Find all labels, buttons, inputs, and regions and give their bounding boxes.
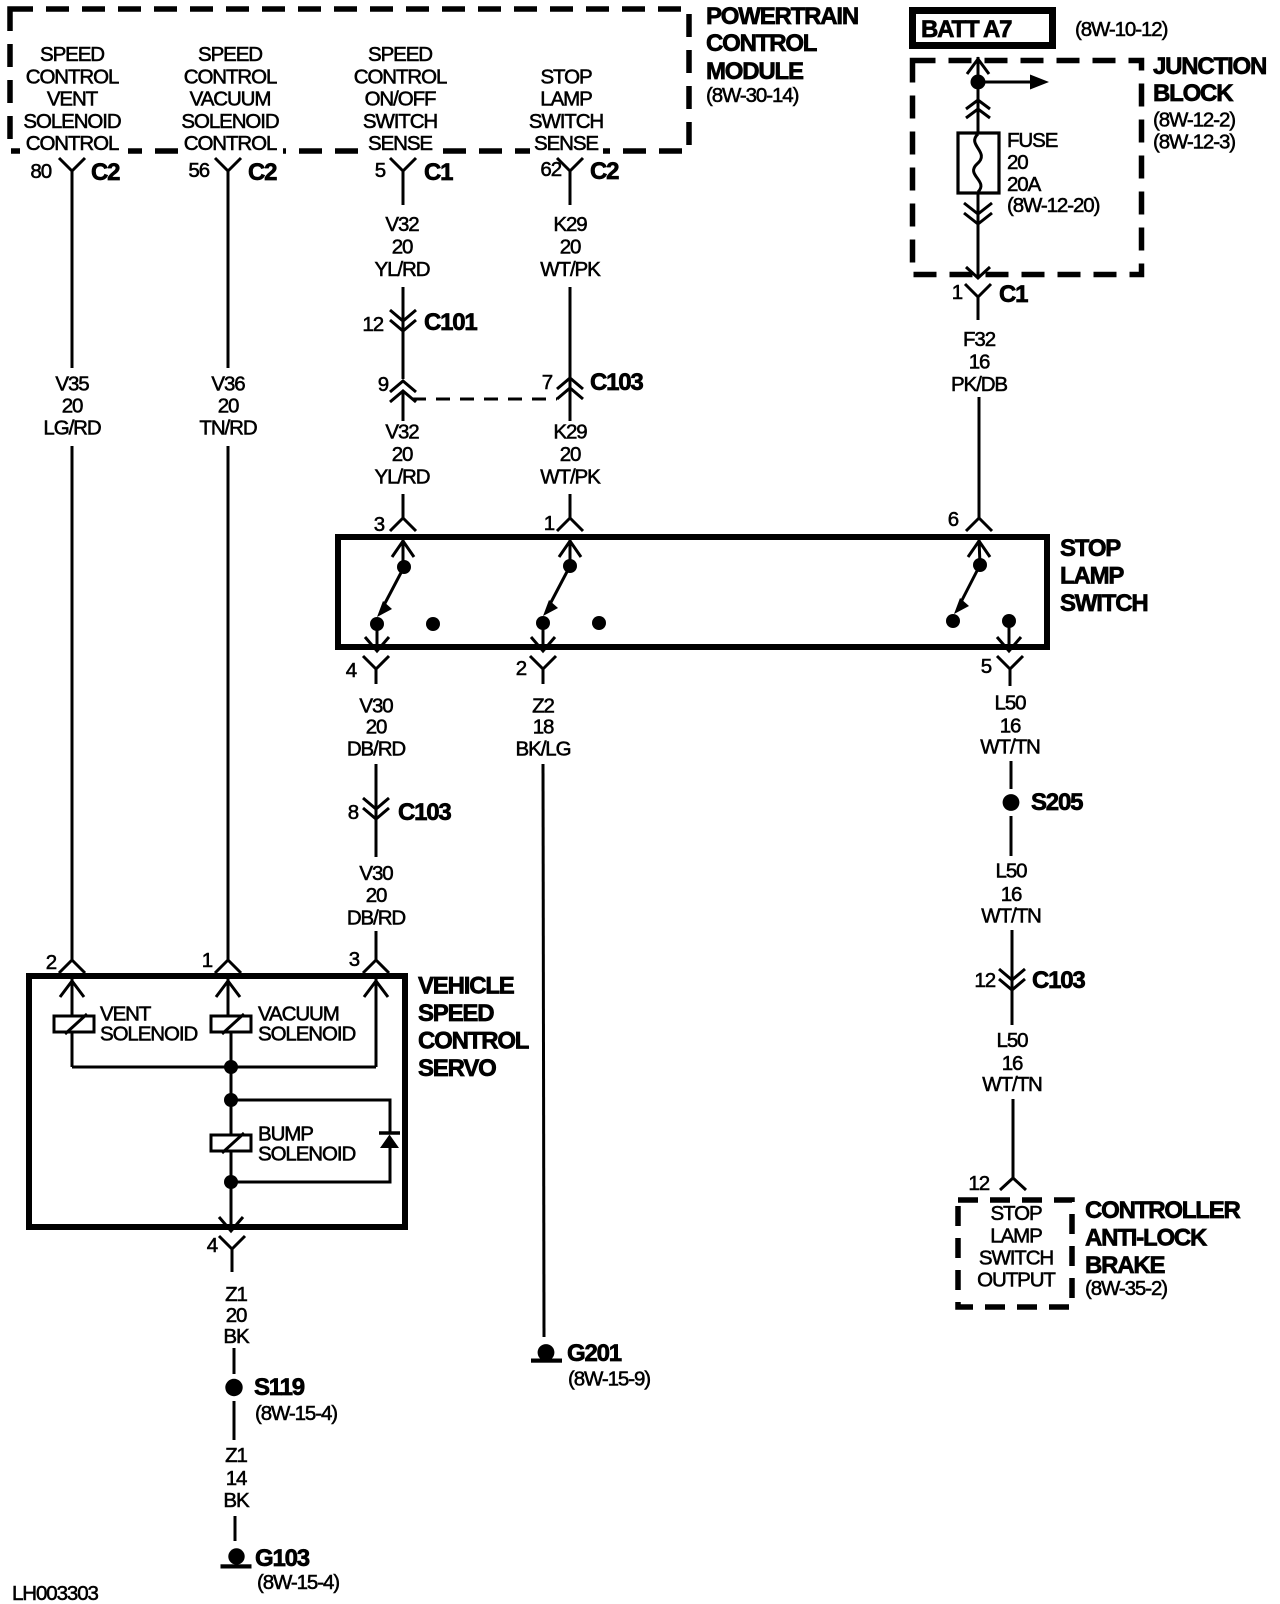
connector C103 pin 7 <box>542 369 644 399</box>
svg-text:12: 12 <box>362 313 383 336</box>
svg-text:CONTROL: CONTROL <box>184 132 277 155</box>
wire label L50 16 WT/TN (upper) <box>980 692 1040 759</box>
wire label V30 20 DB/RD (upper) <box>347 695 406 761</box>
wire label Z2 18 BK/LG <box>516 695 571 761</box>
svg-text:WT/TN: WT/TN <box>980 736 1040 759</box>
svg-text:V36: V36 <box>211 373 245 396</box>
svg-text:C103: C103 <box>590 369 643 396</box>
svg-text:CONTROL: CONTROL <box>706 30 817 57</box>
svg-text:(8W-12-20): (8W-12-20) <box>1007 194 1100 217</box>
svg-text:SWITCH: SWITCH <box>979 1247 1054 1270</box>
svg-text:S205: S205 <box>1031 789 1083 816</box>
switch pin 6 entry arrow <box>968 539 990 565</box>
svg-text:BK: BK <box>223 1325 250 1348</box>
stop lamp switch pin 3 connector half <box>374 505 416 536</box>
svg-text:BRAKE: BRAKE <box>1085 1252 1166 1279</box>
svg-text:YL/RD: YL/RD <box>375 258 430 281</box>
svg-text:2: 2 <box>516 657 527 680</box>
svg-text:YL/RD: YL/RD <box>375 466 430 489</box>
junction dot A in servo <box>224 1060 238 1074</box>
svg-text:C2: C2 <box>590 158 619 185</box>
svg-text:C2: C2 <box>248 159 277 186</box>
battery feed BATT A7 box <box>913 11 1053 46</box>
svg-text:62: 62 <box>540 158 561 181</box>
svg-text:STOP: STOP <box>990 1202 1041 1225</box>
svg-text:SPEED: SPEED <box>40 43 104 66</box>
stop lamp switch pin 6 connector half <box>948 505 992 531</box>
junction block exit arrow <box>966 267 990 278</box>
inline connector chevrons above fuse <box>966 100 990 118</box>
connector C103 pin 12 <box>974 967 1085 994</box>
svg-text:80: 80 <box>30 160 51 183</box>
connector pin 56 of C2 <box>188 158 277 186</box>
svg-text:STOP: STOP <box>1060 535 1121 562</box>
svg-text:LAMP: LAMP <box>990 1225 1042 1248</box>
svg-text:G103: G103 <box>255 1545 310 1572</box>
vacuum solenoid label <box>258 1003 355 1046</box>
switch pole A contact dot <box>370 617 384 631</box>
svg-text:PK/DB: PK/DB <box>951 373 1007 396</box>
svg-text:LAMP: LAMP <box>1060 563 1124 590</box>
wire label K29 20 WT/PK (lower) <box>540 421 601 489</box>
wire label F32 16 PK/DB <box>951 328 1007 396</box>
svg-text:12: 12 <box>974 969 995 992</box>
horizontal bus wire in servo <box>72 1066 376 1069</box>
PCM pin function: speed control vacuum solenoid control <box>181 43 278 155</box>
switch pole B pivot dot <box>563 559 577 573</box>
svg-text:16: 16 <box>1002 1052 1023 1075</box>
svg-text:L50: L50 <box>996 860 1028 883</box>
CAB pin 12 connector half <box>968 1172 1026 1195</box>
svg-text:8: 8 <box>348 801 359 824</box>
switch pole B exit arrow <box>531 637 555 651</box>
ground G201 <box>531 1340 650 1391</box>
wire bump solenoid down <box>230 1100 233 1182</box>
svg-text:18: 18 <box>533 716 554 739</box>
svg-text:ON/OFF: ON/OFF <box>365 88 436 111</box>
wire K29 below C103 <box>569 389 572 421</box>
svg-text:20: 20 <box>226 1304 247 1327</box>
vehicle speed control servo box <box>29 976 405 1227</box>
svg-text:20: 20 <box>366 884 387 907</box>
switch pole B stationary dot <box>592 616 606 630</box>
switch pole C contact dot <box>946 614 960 628</box>
svg-text:DB/RD: DB/RD <box>347 738 406 761</box>
svg-text:SPEED: SPEED <box>368 43 432 66</box>
svg-text:SPEED: SPEED <box>198 43 262 66</box>
svg-text:SWITCH: SWITCH <box>1060 590 1147 617</box>
svg-text:K29: K29 <box>553 421 587 444</box>
servo pin 3 connector half <box>349 948 389 973</box>
svg-text:C1: C1 <box>424 159 453 186</box>
svg-text:SOLENOID: SOLENOID <box>258 1143 355 1166</box>
svg-text:Z1: Z1 <box>225 1283 247 1306</box>
svg-text:BK/LG: BK/LG <box>516 738 571 761</box>
junction block label <box>1153 53 1266 154</box>
wire V36 upper segment <box>227 183 230 368</box>
svg-text:JUNCTION: JUNCTION <box>1153 53 1266 80</box>
controller anti-lock brake box <box>958 1200 1072 1307</box>
svg-text:L50: L50 <box>995 692 1027 715</box>
svg-text:9: 9 <box>378 373 389 396</box>
svg-text:DB/RD: DB/RD <box>347 907 406 930</box>
svg-text:CONTROL: CONTROL <box>26 65 119 88</box>
C103 connector bridge dashed line <box>412 398 557 401</box>
wire label Z1 14 BK <box>223 1444 250 1512</box>
svg-text:3: 3 <box>349 948 360 971</box>
vent solenoid coil <box>54 1014 94 1034</box>
svg-text:20: 20 <box>392 443 413 466</box>
svg-text:(8W-15-4): (8W-15-4) <box>257 1571 339 1594</box>
svg-text:5: 5 <box>375 159 386 182</box>
wire K29 segment from pin 62 <box>569 183 572 205</box>
vacuum solenoid coil <box>211 1014 251 1034</box>
connector pin 5 of C1 <box>375 158 453 186</box>
svg-text:20: 20 <box>62 395 83 418</box>
svg-text:L50: L50 <box>997 1029 1029 1052</box>
switch pin 4 connector half <box>346 656 389 684</box>
svg-text:20: 20 <box>366 716 387 739</box>
svg-text:WT/PK: WT/PK <box>540 466 601 489</box>
ground G103 <box>221 1545 340 1594</box>
svg-text:CONTROL: CONTROL <box>418 1028 529 1055</box>
switch pole A pivot dot <box>397 560 411 574</box>
wire label L50 16 WT/TN (lower) <box>982 1029 1042 1096</box>
wire label V32 20 YL/RD (lower) <box>375 421 430 489</box>
controller anti-lock brake label <box>1085 1197 1241 1300</box>
switch pole A moving arm <box>377 567 404 617</box>
diode branch wire lower <box>231 1147 390 1182</box>
PCM pin function: stop lamp switch sense <box>529 65 604 155</box>
svg-text:G201: G201 <box>567 1340 622 1367</box>
switch pin 3 entry arrow <box>392 539 414 567</box>
svg-text:SWITCH: SWITCH <box>529 110 604 133</box>
switch pin 2 connector half <box>516 656 556 684</box>
svg-text:C103: C103 <box>1032 967 1085 994</box>
wire V32 below C103 <box>402 392 405 421</box>
svg-text:16: 16 <box>1000 715 1021 738</box>
wire label V36 20 TN/RD <box>199 373 256 440</box>
wire V30 through C103 pin 8 <box>375 764 378 857</box>
servo pin 2 entry arrow <box>60 979 84 1016</box>
servo pin 4 exit arrow <box>219 1217 243 1231</box>
wire K29 to stop lamp switch <box>569 494 572 508</box>
svg-text:K29: K29 <box>553 213 587 236</box>
svg-text:20: 20 <box>392 236 413 259</box>
switch pole B output wire <box>542 623 545 651</box>
svg-text:1: 1 <box>202 949 213 972</box>
servo pin 1 connector half <box>202 948 241 973</box>
switch pole A exit arrow <box>365 637 389 651</box>
wire L50 below S205 <box>1010 816 1013 856</box>
wire F32 to stop lamp switch <box>978 397 981 511</box>
svg-text:(8W-30-14): (8W-30-14) <box>706 84 799 107</box>
svg-text:SWITCH: SWITCH <box>363 110 438 133</box>
stop lamp switch pin 1 connector half <box>544 505 583 535</box>
connector C103 pin 9 <box>378 373 416 402</box>
svg-text:(8W-15-4): (8W-15-4) <box>255 1402 337 1425</box>
svg-text:WT/TN: WT/TN <box>981 905 1041 928</box>
svg-text:TN/RD: TN/RD <box>199 417 256 440</box>
svg-text:12: 12 <box>968 1172 989 1195</box>
wire V32 through C101 <box>402 287 405 379</box>
wire label Z1 20 BK <box>223 1283 250 1348</box>
svg-text:CONTROL: CONTROL <box>354 65 447 88</box>
diode branch wire upper <box>231 1100 390 1133</box>
svg-text:20: 20 <box>1007 151 1028 174</box>
wire Z1 below S119 <box>233 1401 236 1440</box>
svg-text:C103: C103 <box>398 799 451 826</box>
svg-text:SPEED: SPEED <box>418 1000 494 1027</box>
connector C103 pin 8 <box>348 798 452 826</box>
bump solenoid coil <box>211 1133 251 1153</box>
svg-text:WT/PK: WT/PK <box>540 258 601 281</box>
svg-text:VENT: VENT <box>47 88 99 111</box>
svg-text:1: 1 <box>544 512 555 535</box>
servo pin 1 entry arrow <box>216 979 240 1016</box>
svg-text:(8W-15-9): (8W-15-9) <box>568 1368 650 1391</box>
junction block entry arrow <box>967 59 989 74</box>
junction dot C in servo <box>224 1175 238 1189</box>
wire label K29 20 WT/PK (upper) <box>540 213 601 281</box>
svg-text:ANTI-LOCK: ANTI-LOCK <box>1085 1225 1208 1252</box>
svg-text:BK: BK <box>223 1489 250 1512</box>
svg-text:C1: C1 <box>999 281 1028 308</box>
wire label V30 20 DB/RD (lower) <box>347 862 406 930</box>
svg-text:14: 14 <box>226 1467 247 1490</box>
svg-text:VEHICLE: VEHICLE <box>418 973 515 1000</box>
servo pin 3 entry arrow <box>364 979 388 1067</box>
svg-text:C2: C2 <box>91 159 120 186</box>
servo pin 2 connector half <box>46 948 85 974</box>
svg-text:LG/RD: LG/RD <box>43 417 100 440</box>
svg-text:(8W-12-3): (8W-12-3) <box>1153 131 1235 154</box>
switch pole B contact dot <box>536 616 550 630</box>
svg-text:V32: V32 <box>385 421 419 444</box>
wire L50 through C103 pin 12 <box>1011 930 1014 1025</box>
svg-text:C101: C101 <box>424 309 477 336</box>
switch pin 1 entry arrow <box>559 539 581 566</box>
switch pin 5 connector half <box>981 655 1023 686</box>
svg-text:(8W-12-2): (8W-12-2) <box>1153 109 1235 132</box>
svg-text:5: 5 <box>981 655 992 678</box>
bus feed arrow right <box>978 75 1049 90</box>
svg-text:BATT A7: BATT A7 <box>921 16 1012 43</box>
fuse label FUSE 20 20A (8W-12-20) <box>1007 129 1100 217</box>
svg-text:SOLENOID: SOLENOID <box>258 1023 355 1046</box>
svg-text:SOLENOID: SOLENOID <box>100 1023 197 1046</box>
svg-text:20A: 20A <box>1007 173 1042 196</box>
fuse 20 (20A) <box>958 133 999 193</box>
wire V32 segment from pin 5 <box>402 183 405 205</box>
connector pin 80 of C2 <box>30 158 120 186</box>
svg-text:SOLENOID: SOLENOID <box>23 110 120 133</box>
svg-text:SENSE: SENSE <box>534 132 598 155</box>
PCM pin function: speed control vent solenoid control <box>23 43 120 155</box>
powertrain control module box <box>10 9 689 151</box>
svg-text:4: 4 <box>346 659 357 682</box>
splice S205 <box>1003 789 1084 816</box>
svg-text:4: 4 <box>207 1234 218 1257</box>
svg-text:FUSE: FUSE <box>1007 129 1058 152</box>
switch pole C stationary dot <box>1002 614 1016 628</box>
svg-text:WT/TN: WT/TN <box>982 1073 1042 1096</box>
stop lamp switch box <box>338 537 1047 647</box>
wire V30 to servo <box>375 931 378 950</box>
switch pole C pivot dot <box>973 558 987 572</box>
connector C101 pin 12 <box>362 309 477 336</box>
servo output wire to pin 4 <box>230 1182 233 1230</box>
svg-text:SOLENOID: SOLENOID <box>181 110 278 133</box>
svg-text:STOP: STOP <box>540 65 591 88</box>
wire V36 lower segment <box>227 446 230 951</box>
svg-text:V30: V30 <box>359 695 393 718</box>
svg-text:16: 16 <box>1001 883 1022 906</box>
wire V32 to stop lamp switch <box>402 494 405 508</box>
wire label V32 20 YL/RD (upper) <box>375 213 430 281</box>
wire Z1 to ground G103 <box>234 1516 237 1541</box>
inline connector chevrons below fuse <box>964 203 992 224</box>
svg-text:SERVO: SERVO <box>418 1055 496 1082</box>
PCM pin function: speed control on/off switch sense <box>354 43 447 155</box>
svg-text:VACUUM: VACUUM <box>190 88 271 111</box>
connector pin 1 of C1 <box>952 281 1028 320</box>
wire from BATT A7 into junction block <box>977 57 980 133</box>
svg-text:2: 2 <box>46 951 57 974</box>
svg-text:LAMP: LAMP <box>540 88 592 111</box>
bump solenoid label <box>258 1123 355 1166</box>
svg-text:BLOCK: BLOCK <box>1153 80 1234 107</box>
svg-text:7: 7 <box>542 371 553 394</box>
svg-text:S119: S119 <box>254 1374 305 1401</box>
svg-text:SENSE: SENSE <box>368 132 432 155</box>
splice S119 <box>225 1374 337 1425</box>
svg-text:3: 3 <box>374 513 385 536</box>
svg-text:20: 20 <box>218 395 239 418</box>
wire vacuum solenoid down <box>230 1032 233 1100</box>
svg-text:16: 16 <box>969 351 990 374</box>
switch pole C output wire <box>1008 621 1011 651</box>
PCM label: powertrain control module <box>706 3 858 107</box>
svg-text:LH003303: LH003303 <box>12 1582 99 1604</box>
svg-text:6: 6 <box>948 508 959 531</box>
svg-text:F32: F32 <box>963 328 996 351</box>
svg-text:V30: V30 <box>359 862 393 885</box>
junction node dot <box>971 75 986 90</box>
wire vent solenoid to bus <box>71 1032 74 1067</box>
clamp diode <box>379 1133 400 1148</box>
wire L50 from pin 5 <box>1010 761 1013 789</box>
svg-text:CONTROL: CONTROL <box>26 132 119 155</box>
svg-text:56: 56 <box>188 159 209 182</box>
svg-text:POWERTRAIN: POWERTRAIN <box>706 3 858 30</box>
junction block box <box>913 61 1142 275</box>
wire Z1 to splice S119 <box>233 1348 236 1374</box>
wire label V35 20 LG/RD <box>43 373 100 440</box>
vent solenoid label <box>100 1003 197 1046</box>
svg-text:(8W-35-2): (8W-35-2) <box>1085 1277 1167 1300</box>
svg-text:Z2: Z2 <box>532 695 554 718</box>
wire V35 lower segment <box>71 446 74 951</box>
switch pole A output wire <box>376 624 379 651</box>
junction dot B in servo <box>224 1093 238 1107</box>
wire V35 upper segment <box>71 183 74 368</box>
svg-text:V32: V32 <box>385 213 419 236</box>
wire below fuse <box>977 193 980 277</box>
connector pin 62 of C2 <box>540 158 619 185</box>
servo label <box>418 973 529 1083</box>
svg-text:CONTROLLER: CONTROLLER <box>1085 1197 1241 1224</box>
switch pole B moving arm <box>543 566 570 616</box>
wire K29 to C103 <box>569 287 572 399</box>
switch pole A stationary dot <box>426 617 440 631</box>
stop lamp switch label <box>1060 535 1147 617</box>
wire Z2 to ground G201 <box>543 764 544 1337</box>
switch pole C moving arm <box>954 565 980 614</box>
svg-text:Z1: Z1 <box>225 1444 247 1467</box>
wire L50 to controller anti-lock brake <box>1012 1099 1015 1178</box>
svg-text:CONTROL: CONTROL <box>184 65 277 88</box>
wire label L50 16 WT/TN (middle) <box>981 860 1041 928</box>
svg-text:MODULE: MODULE <box>706 58 804 85</box>
servo pin 4 connector half <box>207 1234 245 1272</box>
svg-text:(8W-10-12): (8W-10-12) <box>1075 18 1168 41</box>
svg-text:20: 20 <box>560 236 581 259</box>
CAB pin function: stop lamp switch output <box>977 1202 1056 1292</box>
svg-text:V35: V35 <box>55 373 89 396</box>
switch pole C exit arrow <box>997 637 1021 651</box>
svg-text:1: 1 <box>952 281 963 304</box>
svg-text:20: 20 <box>560 443 581 466</box>
svg-text:OUTPUT: OUTPUT <box>977 1269 1056 1292</box>
